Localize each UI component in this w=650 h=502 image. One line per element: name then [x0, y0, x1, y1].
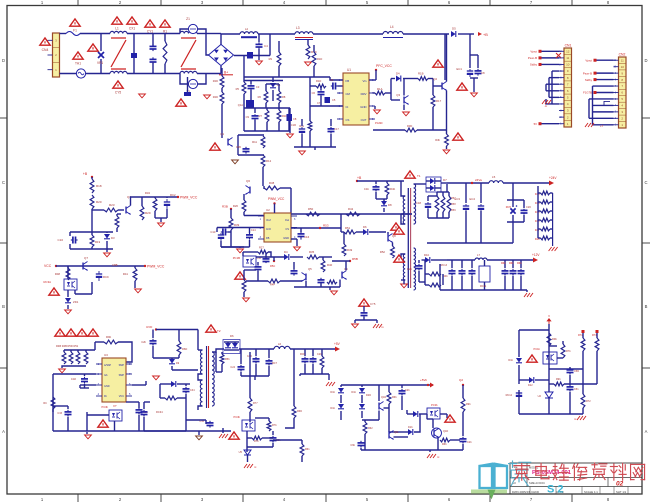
- wire U2 out row: [291, 213, 412, 215]
- wire from Q1 down to Q6: [263, 186, 265, 189]
- svg-text:+12V: +12V: [532, 253, 540, 257]
- resistor R18: [91, 177, 93, 179]
- capacitor C50: [569, 368, 571, 370]
- svg-text:R2D: R2D: [213, 79, 218, 83]
- diode D12: [529, 377, 534, 383]
- resistor R8: [278, 84, 280, 91]
- capacitor C28: [462, 437, 464, 439]
- svg-text:Q1A: Q1A: [238, 103, 243, 107]
- svg-text:Vref: Vref: [266, 218, 271, 222]
- svg-text:R9b: R9b: [556, 378, 561, 381]
- warning triangle CX1: [127, 17, 137, 24]
- svg-text:U1: U1: [347, 68, 351, 72]
- svg-text:C5: C5: [332, 98, 336, 102]
- label R5C: [273, 260, 275, 262]
- svg-text:Vprot: Vprot: [530, 49, 537, 53]
- wire lower bus: [294, 146, 336, 148]
- transformer T2: [206, 346, 208, 408]
- wire main vertical: [309, 77, 311, 121]
- svg-text:CM: CM: [346, 92, 351, 96]
- svg-text:C8: C8: [481, 71, 485, 75]
- warning triangle PC3B a: [98, 420, 108, 427]
- svg-text:EC4: EC4: [470, 197, 476, 201]
- wire prot mid: [362, 419, 379, 421]
- svg-text:Q2: Q2: [459, 378, 463, 382]
- resistor R6: [265, 84, 267, 91]
- svg-text:S 2: S 2: [547, 484, 564, 496]
- svg-text:RCb: RCb: [300, 353, 306, 356]
- title block: [510, 463, 642, 494]
- warning triangle TH1: [73, 52, 83, 59]
- capacitor EC3: [465, 183, 467, 203]
- resistor R16b: [418, 77, 428, 81]
- svg-text:R77: R77: [253, 402, 258, 405]
- svg-text:R6b: R6b: [392, 396, 397, 399]
- resistor R57: [436, 192, 438, 196]
- resistor R1D mid: [310, 85, 316, 87]
- warning triangle prot: [445, 415, 455, 422]
- resistor RC41: [51, 397, 55, 409]
- svg-text:R5b: R5b: [225, 358, 230, 361]
- svg-text:+5Vb: +5Vb: [420, 378, 427, 382]
- capacitor bank 12V: [504, 260, 506, 268]
- wire bottom rail: [60, 73, 77, 75]
- diode D9: [153, 357, 179, 359]
- resistor R37: [405, 128, 417, 132]
- svg-text:VR1: VR1: [97, 61, 103, 65]
- capacitor C3B: [143, 410, 145, 412]
- svg-text:B: B: [2, 304, 5, 309]
- svg-text:D2D: D2D: [366, 394, 371, 397]
- transistor Q6: [249, 187, 251, 194]
- svg-text:U2: U2: [538, 394, 542, 398]
- capacitor C24: [240, 365, 242, 367]
- svg-text:U5: U5: [239, 450, 243, 454]
- svg-text:D4: D4: [396, 72, 400, 76]
- optocoupler PCB2: [427, 408, 440, 419]
- resistor R62: [363, 422, 367, 434]
- earth prot: [427, 454, 430, 458]
- svg-text:R4P: R4P: [270, 283, 275, 287]
- resistor R59: [448, 192, 450, 196]
- svg-text:CS: CS: [285, 227, 289, 231]
- capacitor RC7: [268, 359, 270, 361]
- svg-text:C18: C18: [416, 201, 422, 205]
- resistor R34: [153, 198, 157, 211]
- warning triangle R36: [453, 133, 463, 140]
- svg-text:PFC_VCC: PFC_VCC: [376, 64, 392, 68]
- svg-text:D6: D6: [363, 225, 367, 229]
- wire D5 out: [458, 33, 474, 35]
- svg-text:C32: C32: [71, 377, 77, 381]
- warning triangle T1: [405, 171, 415, 178]
- diode D13: [408, 429, 413, 435]
- svg-text:C24: C24: [230, 366, 235, 369]
- resistor R5: [242, 82, 246, 94]
- svg-text:Z1: Z1: [186, 17, 190, 21]
- watermark teal glyph: [509, 461, 531, 486]
- wire B+ drop to Q2: [444, 34, 446, 80]
- capacitor C22: [375, 181, 377, 184]
- wire cluster bottom bus: [244, 130, 290, 132]
- svg-text:D12: D12: [528, 384, 533, 387]
- svg-text:SHT 1/1: SHT 1/1: [616, 490, 627, 494]
- ground CY2: [204, 94, 211, 96]
- svg-text:Q5: Q5: [308, 267, 312, 271]
- svg-text:R6b: R6b: [517, 262, 522, 265]
- varistor VR1: [100, 34, 102, 52]
- varistor RC5: [512, 183, 514, 200]
- svg-text:24Va: 24Va: [475, 178, 482, 182]
- resistor R77: [249, 352, 251, 398]
- svg-text:RC12: RC12: [506, 394, 513, 397]
- diode D11r: [516, 358, 522, 363]
- diode D8: [381, 201, 387, 206]
- ground C10 box: [106, 249, 108, 252]
- label +12V arrow: [533, 258, 538, 263]
- ground T1: [401, 283, 408, 285]
- svg-text:F1: F1: [73, 29, 77, 33]
- svg-text:D1b: D1b: [330, 391, 335, 394]
- frame column ticks and numbers: [77, 0, 79, 6]
- svg-text:12: 12: [566, 49, 570, 53]
- svg-text:R5C: R5C: [270, 264, 275, 268]
- svg-text:C: C: [2, 180, 5, 185]
- capacitor C6m: [331, 85, 333, 87]
- svg-text:R1A: R1A: [377, 87, 383, 91]
- svg-text:VCC: VCC: [44, 264, 52, 268]
- wire opto drop: [67, 266, 69, 279]
- capacitor C16: [300, 231, 302, 234]
- svg-text:C51: C51: [574, 388, 579, 391]
- capacitor C40: [255, 357, 257, 359]
- ground CY5a: [139, 93, 146, 95]
- transistor Q10: [432, 428, 442, 438]
- wire U1 cs: [373, 129, 405, 131]
- snubber box C36: [238, 134, 264, 136]
- svg-text:Q2: Q2: [433, 77, 437, 81]
- svg-text:SCALE 1:1: SCALE 1:1: [584, 490, 598, 494]
- svg-text:R53: R53: [323, 224, 329, 228]
- inductor L2b: [240, 32, 258, 34]
- svg-text:+B: +B: [357, 176, 362, 180]
- svg-text:Q1D: Q1D: [381, 396, 386, 399]
- svg-text:R34: R34: [145, 191, 151, 195]
- ground U2: [296, 239, 298, 246]
- earth 5V: [326, 382, 329, 386]
- svg-text:CY5: CY5: [115, 91, 121, 95]
- ground R30: [305, 61, 312, 63]
- wire 12V rail: [447, 259, 475, 261]
- svg-text:L7: L7: [477, 253, 481, 257]
- wire out row to T1: [401, 213, 412, 215]
- svg-text:R2D: R2D: [213, 95, 218, 99]
- bridge rectifier BD1: [209, 44, 234, 65]
- svg-text:C20: C20: [526, 205, 531, 209]
- transformer T1: [407, 188, 409, 288]
- svg-text:R1B: R1B: [418, 72, 424, 76]
- svg-text:B: B: [645, 304, 648, 309]
- svg-text:SMP: SMP: [119, 364, 125, 367]
- svg-text:R58: R58: [451, 203, 456, 206]
- svg-text:Pson-B: Pson-B: [528, 56, 537, 60]
- warning triangle T1 left b: [394, 255, 404, 262]
- svg-text:PC3b: PC3b: [431, 403, 438, 407]
- svg-text:D: D: [2, 58, 5, 63]
- svg-text:R27: R27: [259, 246, 264, 250]
- watermark book icon: [480, 463, 508, 489]
- svg-text:R1D: R1D: [316, 79, 321, 83]
- svg-text:In/O: In/O: [266, 227, 271, 231]
- svg-text:R20: R20: [96, 200, 102, 204]
- inductor L7: [475, 258, 487, 260]
- label R53 node: [319, 227, 321, 229]
- capacitor C9: [254, 108, 256, 113]
- earth right: [577, 416, 580, 420]
- ground U1: [374, 106, 376, 109]
- capacitor CY1: [152, 34, 154, 46]
- svg-text:C2b: C2b: [405, 389, 410, 392]
- svg-text:R7: R7: [259, 114, 263, 118]
- svg-text:PC3b: PC3b: [234, 415, 241, 419]
- svg-text:C16: C16: [304, 235, 310, 239]
- resistor R30: [307, 40, 309, 46]
- svg-text:R19: R19: [95, 240, 101, 244]
- capacitor C33: [67, 410, 69, 412]
- resistor R22: [116, 214, 118, 216]
- svg-text:OUT: OUT: [361, 118, 367, 122]
- capacitor C27: [360, 441, 362, 443]
- capacitor C3c: [250, 84, 252, 86]
- svg-text:CX1: CX1: [129, 27, 135, 31]
- wire 5V rail: [239, 348, 274, 350]
- svg-text:R52: R52: [380, 250, 386, 254]
- svg-text:R4B R4B R5D R51: R4B R4B R5D R51: [56, 344, 79, 348]
- wire bridge output: [234, 55, 270, 57]
- transistor Q4: [125, 207, 127, 214]
- wire pwm left bus: [244, 215, 264, 217]
- capacitor C8: [477, 55, 479, 68]
- svg-text:C6b: C6b: [350, 444, 355, 447]
- resistor R41: [134, 266, 136, 268]
- mark CN1 pin2 cross: [556, 53, 561, 58]
- capacitor C5b: [325, 97, 331, 103]
- wire drive branch: [340, 214, 342, 232]
- optocoupler PC1B: [543, 352, 557, 364]
- label +5VB: [427, 384, 429, 386]
- diode Ddrv: [390, 79, 392, 94]
- svg-text:C2b: C2b: [141, 340, 146, 344]
- inductor L6: [274, 346, 290, 349]
- earth CN1: [546, 99, 552, 104]
- capacitor CY2: [184, 92, 191, 96]
- svg-text:02: 02: [616, 481, 624, 488]
- wire U3 left drops: [52, 374, 54, 412]
- capacitor C2B2: [257, 265, 259, 267]
- svg-text:R8: R8: [282, 95, 286, 99]
- resistor R15: [375, 91, 385, 95]
- svg-text:UVD: UVD: [146, 325, 153, 329]
- resistor R72: [582, 369, 584, 394]
- op-amp U1 PFC controller: [343, 73, 369, 125]
- warning triangle Q8: [391, 223, 401, 230]
- ground Q3: [403, 111, 410, 113]
- svg-text:C6: C6: [312, 91, 316, 95]
- svg-text:Vin: Vin: [363, 79, 367, 83]
- transistor Q11: [388, 432, 390, 439]
- svg-text:Q1: Q1: [220, 132, 224, 136]
- capacitor C12: [293, 269, 295, 271]
- shunt reg U5s: [244, 450, 251, 455]
- resistor R96: [104, 340, 118, 344]
- optocoupler PC3Bb: [242, 420, 255, 431]
- svg-text:C7: C7: [317, 101, 321, 105]
- svg-text:R23: R23: [109, 203, 115, 207]
- wire Q4 collector rail: [131, 197, 179, 206]
- wire prot rail: [341, 384, 433, 386]
- svg-text:R38: R38: [269, 181, 275, 185]
- wire cluster top bus: [244, 76, 330, 78]
- svg-text:R61: R61: [305, 448, 310, 451]
- svg-text:R35: R35: [309, 250, 315, 254]
- ground R3B: [243, 292, 245, 297]
- capacitor C51: [569, 385, 571, 387]
- svg-text:R50: R50: [308, 207, 314, 211]
- svg-text:CN1: CN1: [565, 44, 572, 48]
- wire standby top: [156, 329, 198, 331]
- svg-text:R26: R26: [233, 204, 239, 208]
- capacitor C25: [471, 260, 473, 268]
- svg-text:EC1: EC1: [457, 67, 463, 71]
- resistor R52: [392, 243, 394, 247]
- resistor R29: [141, 204, 143, 206]
- label +B T1: [356, 180, 358, 182]
- capacitor C31: [84, 377, 86, 379]
- resistor R98p: [462, 385, 464, 398]
- capacitor CX1: [133, 34, 135, 54]
- svg-text:R6D: R6D: [182, 347, 187, 351]
- svg-text:T2: T2: [217, 329, 221, 333]
- svg-text:PC3b: PC3b: [102, 405, 109, 409]
- svg-text:+T: +T: [600, 124, 604, 128]
- svg-text:T1: T1: [417, 174, 421, 178]
- resistor R63: [388, 385, 390, 392]
- svg-text:C8B: C8B: [112, 263, 118, 267]
- shunt reg U5r: [545, 392, 553, 398]
- svg-text:Q3: Q3: [396, 93, 400, 97]
- svg-text:U3: U3: [104, 353, 108, 357]
- wire q11 row: [394, 436, 409, 438]
- svg-text:FB: FB: [346, 79, 350, 83]
- svg-text:R3B: R3B: [222, 205, 228, 209]
- capacitor EC4: [480, 183, 482, 203]
- resistor R76: [252, 436, 262, 440]
- wire fb net: [262, 437, 273, 439]
- warning triangle VR1: [88, 44, 98, 51]
- warning triangle D5Q2: [433, 60, 443, 67]
- svg-text:R51: R51: [345, 226, 351, 230]
- resistor R3B: [242, 280, 246, 292]
- svg-text:L3: L3: [296, 26, 300, 30]
- wire right net a: [548, 350, 550, 369]
- svg-text:PC1b: PC1b: [534, 347, 541, 351]
- wire pfc top rail: [221, 33, 240, 35]
- wire prot bottom: [361, 449, 463, 451]
- resistor R5A: [221, 352, 223, 354]
- resistor R47: [386, 181, 388, 183]
- resistor R48: [67, 266, 69, 268]
- svg-text:RC5: RC5: [506, 205, 512, 209]
- svg-text:RC34: RC34: [156, 410, 163, 414]
- capacitor C20: [523, 200, 525, 208]
- svg-text:D1b: D1b: [424, 253, 430, 257]
- diode D6: [363, 229, 368, 235]
- svg-text:R72: R72: [586, 400, 591, 403]
- svg-text:C1b: C1b: [364, 187, 370, 191]
- warning triangle pwm gnd: [235, 272, 245, 279]
- resistor R1: [164, 34, 166, 42]
- label PWM_VCC b: [144, 265, 146, 267]
- wire T2 sec top: [212, 349, 224, 352]
- capacitor C14: [249, 233, 251, 235]
- capacitor C34: [185, 387, 187, 389]
- svg-text:R42: R42: [348, 207, 354, 211]
- resistor R58: [442, 192, 444, 196]
- svg-text:R9b: R9b: [106, 335, 112, 339]
- wire 5V bottom bus: [300, 373, 329, 375]
- diode D5: [451, 31, 456, 37]
- svg-text:R62: R62: [368, 427, 373, 430]
- resistor R7Br: [562, 341, 564, 344]
- box RC10: [479, 266, 490, 282]
- wire standby bottom bus: [91, 430, 231, 432]
- wire bridge to Q1: [221, 68, 223, 76]
- svg-text:R12: R12: [266, 159, 272, 163]
- resistor R10t: [313, 45, 315, 52]
- capacitor C19: [418, 264, 420, 266]
- svg-text:DRV: DRV: [361, 92, 367, 96]
- thermistor TH1: [76, 69, 85, 78]
- label PWM_VCC a: [177, 196, 179, 198]
- svg-text:11: 11: [621, 58, 624, 62]
- svg-text:RC: RC: [43, 402, 47, 405]
- svg-text:Out: Out: [285, 218, 289, 222]
- warning triangle CY2: [176, 99, 186, 106]
- transistor Q7: [82, 263, 84, 270]
- svg-text:C13: C13: [210, 230, 216, 234]
- capacitor CY5: [363, 306, 365, 311]
- capacitor RC12: [518, 391, 520, 393]
- svg-text:RC13: RC13: [441, 264, 448, 267]
- svg-text:C36: C36: [236, 145, 242, 149]
- svg-text:10: 10: [621, 65, 625, 69]
- resistor R60b: [293, 349, 295, 406]
- svg-text:C9: C9: [246, 115, 250, 119]
- earth CN2: [585, 123, 588, 127]
- zener ZD1: [65, 298, 71, 303]
- optocoupler PC3B: [109, 410, 122, 421]
- wire R20 node down: [91, 209, 93, 232]
- svg-text:A: A: [645, 429, 648, 434]
- warning triangle mid: [210, 143, 220, 150]
- svg-text:R11: R11: [252, 140, 257, 144]
- svg-text:FB: FB: [266, 236, 270, 240]
- resistor R71: [581, 338, 585, 351]
- transistor Q3: [403, 97, 405, 104]
- svg-text:R6: R6: [258, 95, 262, 99]
- warning triangle CN4: [40, 38, 50, 45]
- svg-text:CN4: CN4: [42, 48, 49, 52]
